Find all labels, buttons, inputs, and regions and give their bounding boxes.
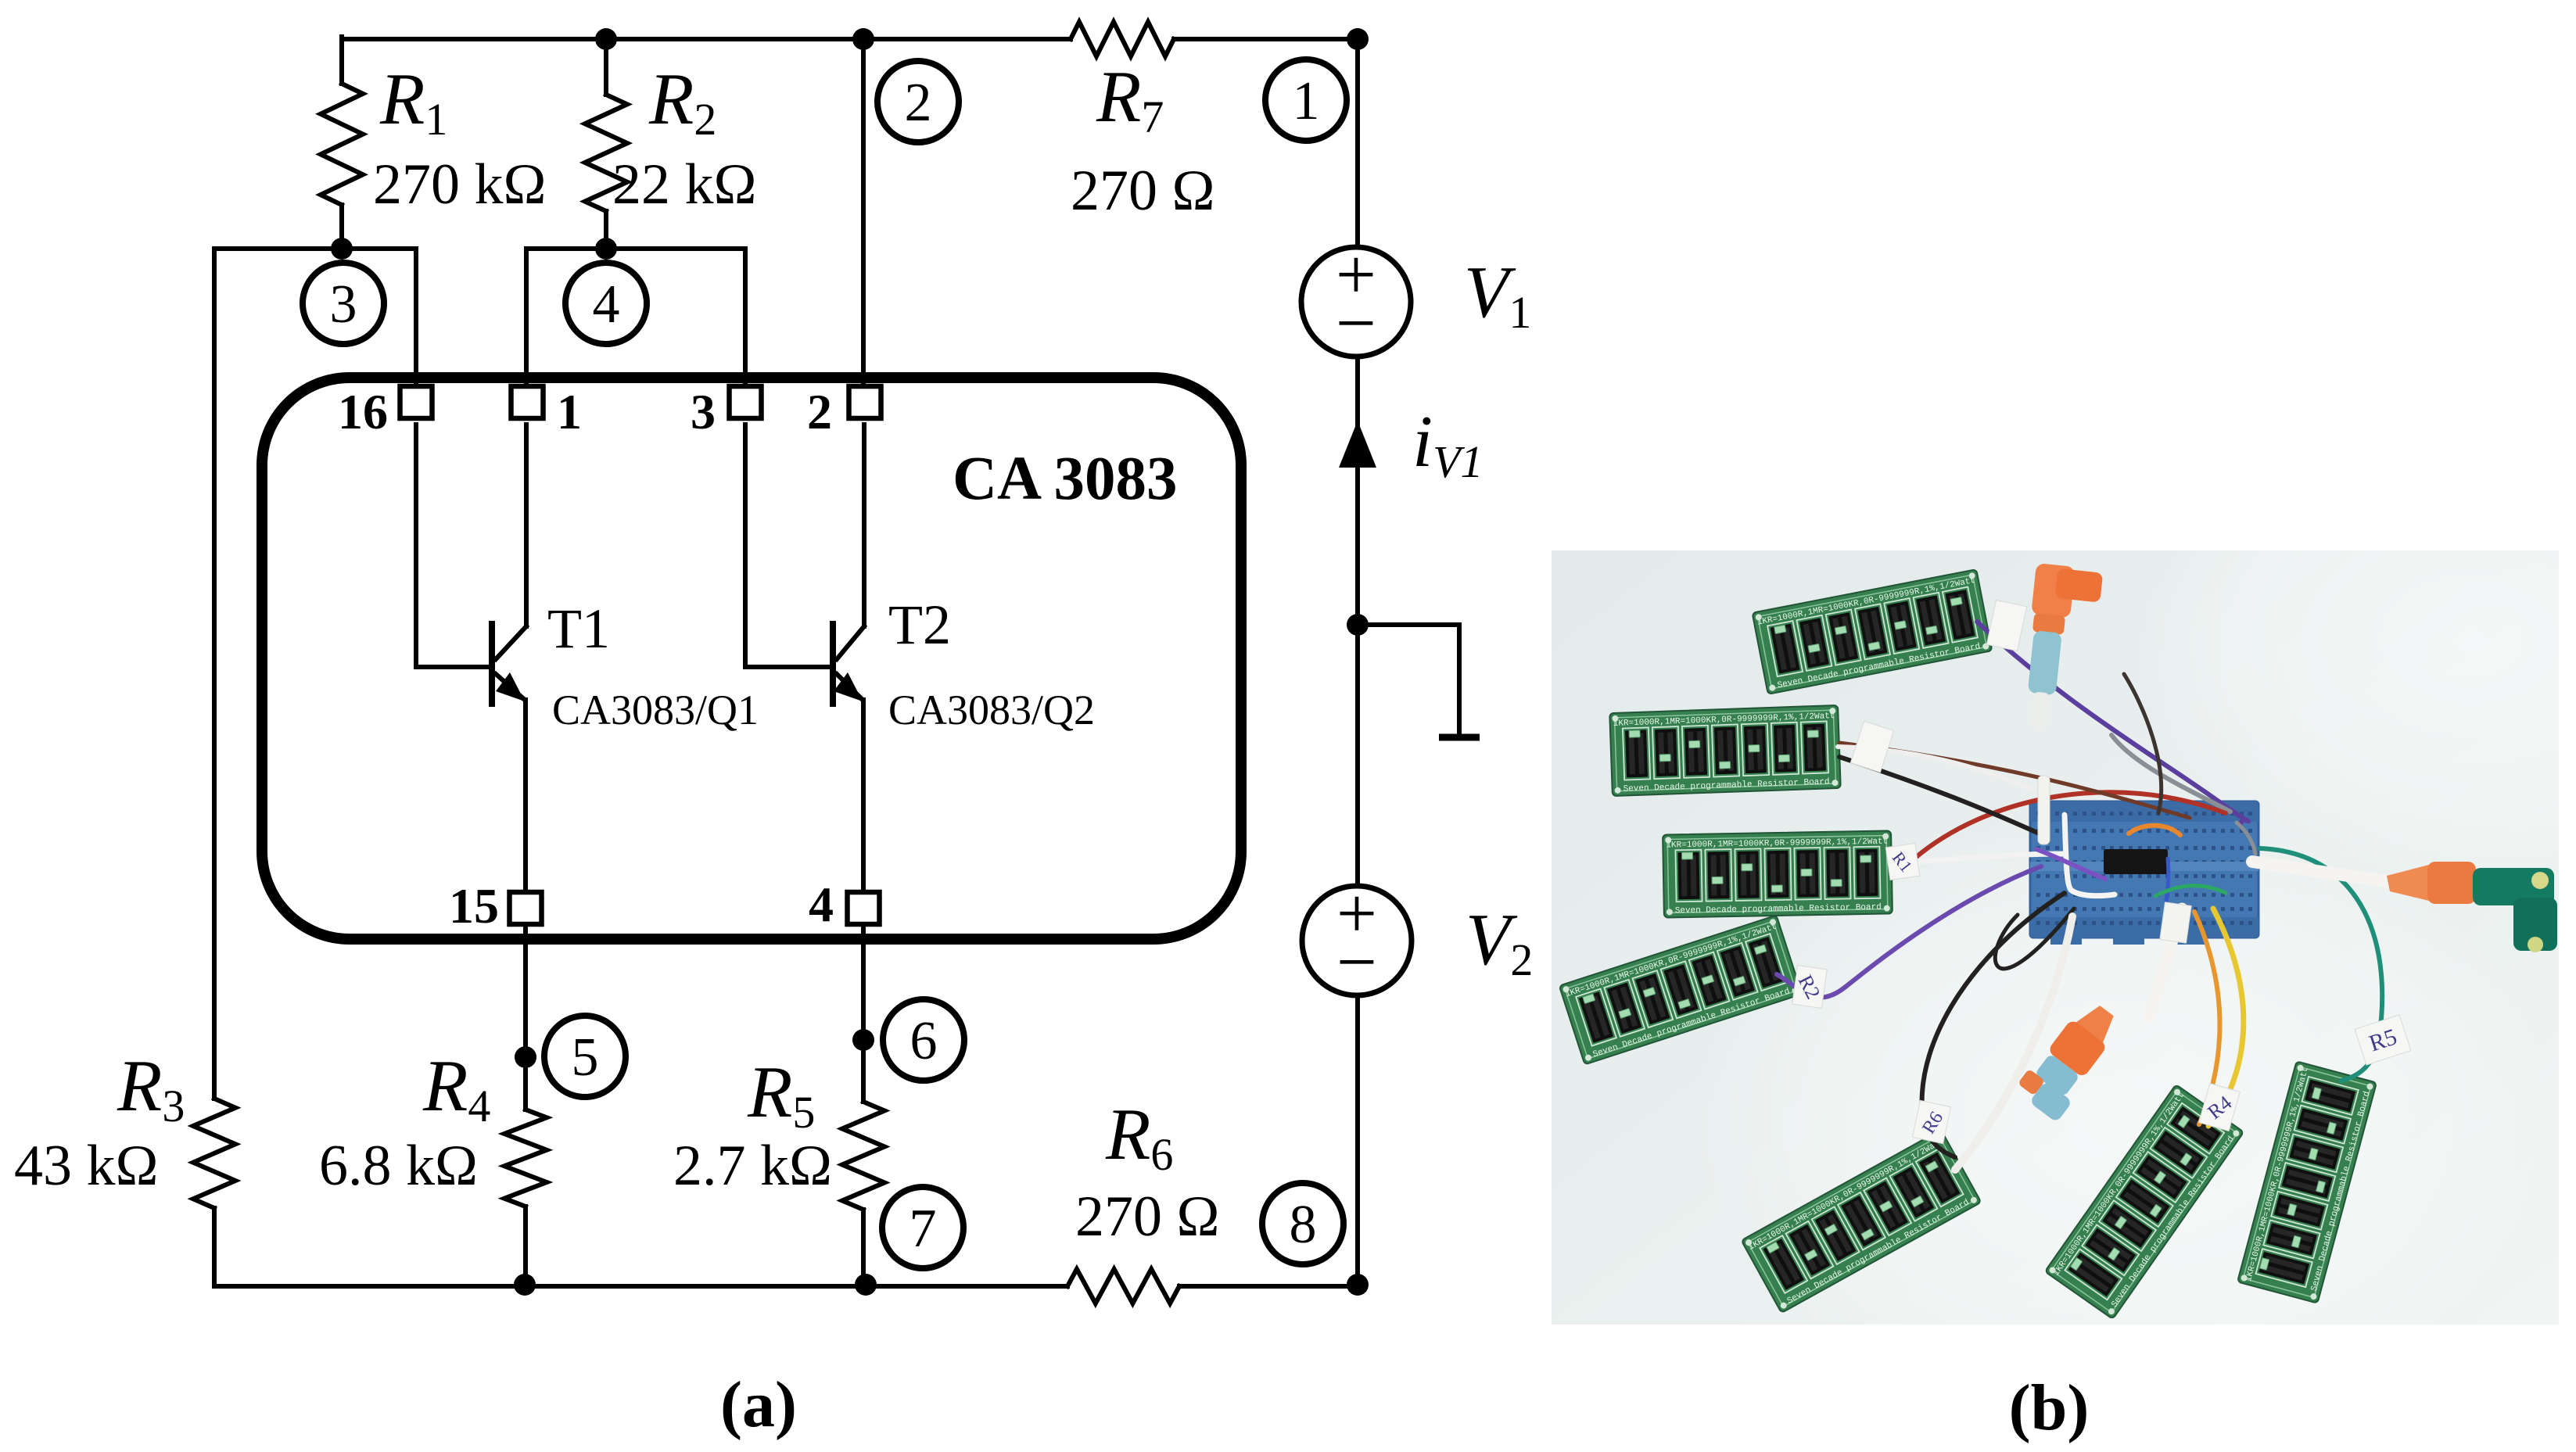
svg-text:4: 4 (593, 274, 620, 335)
svg-text:3: 3 (691, 384, 716, 439)
resistor R7 (1071, 22, 1174, 56)
wire T1 emitter to pin15 (523, 700, 528, 891)
svg-text:−: − (1336, 922, 1377, 1002)
node 5 junction (515, 1046, 536, 1068)
svg-text:CA 3083: CA 3083 (953, 445, 1178, 513)
wire R1 top lead (339, 37, 344, 84)
resistor R5 (842, 1102, 884, 1210)
wire T2 emitter to pin4 (861, 700, 866, 891)
node 7 junction (855, 1274, 877, 1296)
svg-text:5: 5 (572, 1027, 599, 1088)
pin 1 (511, 386, 544, 418)
resistor R1 (321, 84, 363, 205)
node A junction top of R2 (595, 28, 617, 50)
pin 15 (510, 892, 542, 924)
svg-text:270 kΩ: 270 kΩ (373, 152, 547, 217)
wire R4 bottom lead (523, 1206, 528, 1286)
wire node1 to V1 (1355, 39, 1360, 247)
wire pin3 drop (743, 249, 748, 407)
node 8 circle (1262, 1183, 1344, 1264)
wire node 3 horizontal (214, 246, 416, 251)
svg-text:2: 2 (807, 384, 832, 439)
pin 4 (848, 892, 880, 924)
node 4 circle (565, 263, 647, 344)
svg-text:T1: T1 (547, 597, 610, 660)
wire V2 to bottom rail (1355, 995, 1360, 1286)
breadboard (2030, 801, 2258, 945)
probe P1 orange with cyan sleeve (2019, 563, 2103, 733)
node 6 junction (852, 1029, 874, 1051)
svg-text:4: 4 (809, 877, 834, 932)
resistor R2 (585, 95, 627, 211)
node 5 circle (544, 1016, 626, 1097)
resistor R4 (504, 1110, 547, 1206)
wire R5 bottom lead (861, 1210, 866, 1286)
wire V1 to V2 with iV1 arrow (1355, 357, 1360, 886)
node 3 junction (331, 238, 353, 260)
IC U1 CA 3083 package outline (262, 378, 1241, 939)
svg-text:270 Ω: 270 Ω (1071, 159, 1215, 223)
node mid junction (1347, 614, 1369, 636)
node 6 circle (883, 999, 964, 1081)
node B junction top right corner (1347, 28, 1369, 50)
source V1 (1301, 247, 1411, 357)
wire left branch R3 vertical (212, 249, 217, 1099)
svg-text:7: 7 (909, 1199, 937, 1259)
wire pin16 to T1 base (416, 425, 490, 667)
white cable to bottom probe (2149, 909, 2182, 1016)
pin 3 (730, 386, 762, 418)
white tag near B1 (1986, 600, 2026, 651)
wire R3 bottom lead (214, 1208, 525, 1286)
PCB board B2 (1609, 705, 1841, 796)
PCB board B4 (1559, 915, 1802, 1064)
svg-text:CA3083/Q1: CA3083/Q1 (552, 687, 759, 733)
photo panel background (1552, 550, 2559, 1325)
wire pin3 to T2 base (745, 425, 831, 667)
wire R2 top lead (604, 37, 608, 95)
wire R2 bottom lead (604, 211, 608, 249)
resistor R3 (193, 1099, 235, 1208)
node 3 circle (303, 263, 384, 344)
svg-text:6.8 kΩ: 6.8 kΩ (319, 1134, 478, 1198)
PCB board B7 (2237, 1061, 2377, 1303)
white tag R5 (2355, 1015, 2411, 1065)
pin 2 (849, 386, 881, 418)
white pin stick on breadboard (2038, 776, 2050, 844)
svg-text:−: − (1336, 283, 1376, 363)
wire T2 collector to pin2 (862, 425, 866, 626)
svg-text:22 kΩ: 22 kΩ (612, 152, 757, 217)
wire node 4 horizontal (526, 246, 745, 251)
wire bottom rail (525, 1284, 1358, 1289)
svg-text:16: 16 (338, 384, 388, 439)
transistor Q1 T1 (489, 621, 495, 707)
wire pin16 drop (414, 249, 418, 407)
ground (1358, 625, 1459, 735)
wire R1 bottom lead (339, 205, 344, 249)
svg-text:3: 3 (330, 274, 357, 335)
white tag on breadboard (2160, 902, 2191, 943)
pin 16 (400, 386, 432, 418)
svg-text:43 kΩ: 43 kΩ (14, 1134, 159, 1198)
node 4 junction (595, 238, 617, 260)
wire pin4 to node 6 and R5 (861, 927, 866, 1102)
lighting highlights (1689, 805, 2565, 1431)
white tag R2 (1791, 965, 1828, 1008)
svg-text:1: 1 (557, 384, 582, 439)
wire pin1 drop (524, 249, 529, 407)
source V2 (1302, 886, 1412, 995)
node R4-bottom junction (514, 1274, 536, 1296)
svg-text:(a): (a) (720, 1368, 797, 1441)
photo wires (1777, 622, 2382, 1157)
white tag near B2 (1850, 721, 1893, 773)
svg-text:(b): (b) (2009, 1371, 2090, 1444)
white cable to right probe (2252, 862, 2391, 882)
svg-text:15: 15 (449, 878, 499, 934)
PCB board B3 (1663, 830, 1893, 917)
svg-text:CA3083/Q2: CA3083/Q2 (888, 687, 1095, 733)
wire pin2 drop node 2 vertical (861, 39, 866, 407)
PCB board B1 (1753, 569, 1993, 694)
wire T1 collector to pin1 (524, 425, 529, 626)
white tag R4 (2198, 1083, 2241, 1131)
breadboard mini wires (2129, 823, 2255, 901)
white cable from B5 (1955, 916, 2072, 1170)
node 1 circle (1265, 59, 1347, 141)
white tag R1 (1885, 844, 1919, 880)
svg-text:1: 1 (1293, 71, 1320, 131)
node bottom-right junction (1347, 1274, 1369, 1296)
PCB board B6 (2045, 1085, 2244, 1319)
current arrow iV1 (1339, 421, 1376, 468)
wire top rail node 2 to node 1 (342, 37, 1358, 41)
wire pin15 to node 5 and R4 (523, 927, 528, 1110)
svg-text:2.7 kΩ: 2.7 kΩ (673, 1134, 832, 1198)
connector P3 orange crimp + green plug (2387, 862, 2557, 952)
resistor R6 (1067, 1269, 1179, 1303)
svg-text:6: 6 (910, 1011, 938, 1071)
svg-text:8: 8 (1290, 1195, 1317, 1255)
svg-text:2: 2 (905, 73, 932, 133)
svg-text:270 Ω: 270 Ω (1075, 1185, 1220, 1249)
probe P2 orange with cyan sleeve (2013, 995, 2129, 1123)
PCB board B5 (1742, 1130, 1982, 1313)
svg-text:T2: T2 (888, 593, 951, 656)
IC chip on breadboard (2104, 849, 2168, 874)
node 7 circle (882, 1187, 963, 1268)
node 2 junction on top rail (852, 28, 874, 50)
white tag R6 (1912, 1100, 1950, 1143)
transistor Q2 T2 (830, 621, 836, 707)
node 2 circle (877, 61, 959, 142)
